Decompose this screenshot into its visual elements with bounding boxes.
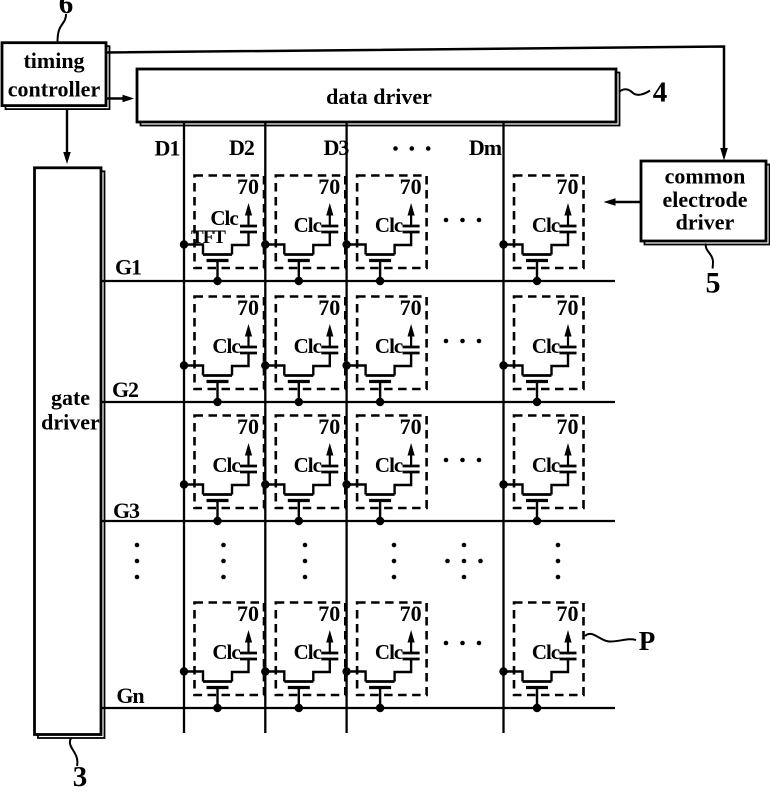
pixel cell R2C4 dashed outline bbox=[514, 297, 584, 390]
junction: gate on gate line (R1C4) bbox=[533, 277, 541, 285]
TFT gate bar (R3C2) bbox=[288, 499, 310, 502]
TFT transistor R1C2 channel bbox=[284, 253, 313, 256]
svg-text:driver: driver bbox=[41, 410, 100, 435]
wire: capacitor to TFT drain (R1C1) bbox=[232, 232, 249, 255]
svg-text:Clc: Clc bbox=[294, 640, 322, 664]
wire: capacitor to TFT drain (R2C1) bbox=[232, 353, 249, 376]
capacitor Clc R3C2 plates bbox=[321, 466, 338, 472]
wire: data line to TFT source (R2C3) bbox=[347, 366, 366, 376]
pixel cell R4C2 dashed outline bbox=[276, 603, 346, 696]
junction: gate on gate line (R4C4) bbox=[533, 704, 541, 712]
wire: capacitor to TFT drain (R2C2) bbox=[313, 353, 330, 376]
wire arrow: common electrode driver to panel bbox=[604, 198, 642, 206]
TFT gate bar (R2C4) bbox=[526, 380, 548, 383]
junction: source on data line (R1C4) bbox=[499, 240, 507, 248]
svg-text:D1: D1 bbox=[155, 136, 180, 161]
wire: capacitor to TFT drain (R3C2) bbox=[313, 472, 330, 495]
wire: TFT gate to gate line (R1C1) bbox=[216, 262, 218, 281]
wire: data line to TFT source (R1C1) bbox=[184, 245, 203, 255]
svg-text:5: 5 bbox=[706, 267, 721, 300]
TFT gate bar (R2C1) bbox=[207, 380, 229, 383]
junction: source on data line (R4C1) bbox=[180, 667, 188, 675]
pixel cell R2C1 dashed outline bbox=[195, 297, 265, 390]
svg-text:Gn: Gn bbox=[116, 683, 144, 708]
wire: data line to TFT source (R3C1) bbox=[184, 485, 203, 495]
wire: data line to TFT source (R2C2) bbox=[265, 366, 284, 376]
wire: TFT gate to gate line (R1C4) bbox=[536, 262, 538, 281]
svg-text:G1: G1 bbox=[115, 255, 141, 280]
TFT gate bar (R1C2) bbox=[288, 259, 310, 262]
junction: source on data line (R3C4) bbox=[499, 480, 507, 488]
svg-text:Clc: Clc bbox=[375, 453, 403, 477]
svg-text:70: 70 bbox=[318, 414, 340, 439]
diagonal/horizontal extra dots at matrix ellipsis crossing bbox=[445, 559, 483, 564]
wire arrow: timing controller to data driver bbox=[107, 95, 134, 103]
TFT transistor R3C3 channel bbox=[366, 493, 395, 496]
TFT transistor R2C3 channel bbox=[366, 374, 395, 377]
ellipsis row 2 between C3 and Cm bbox=[444, 339, 482, 344]
wire: TFT gate to gate line (R3C4) bbox=[536, 502, 538, 521]
svg-text:70: 70 bbox=[557, 414, 579, 439]
svg-text:3: 3 bbox=[73, 761, 88, 787]
common electrode driver U5 box shadow bbox=[645, 165, 770, 245]
ellipsis between D3 and Dm labels bbox=[393, 146, 430, 151]
wire: capacitor to TFT drain (R4C4) bbox=[552, 659, 569, 682]
svg-text:Clc: Clc bbox=[532, 640, 560, 664]
svg-text:Clc: Clc bbox=[294, 453, 322, 477]
timing controller U6 box shadow bbox=[6, 46, 110, 109]
TFT transistor R2C2 channel bbox=[284, 374, 313, 377]
svg-text:70: 70 bbox=[318, 601, 340, 626]
data driver U4 box bbox=[137, 69, 616, 122]
data line D3 bbox=[345, 122, 347, 733]
lead line to ref 3 bbox=[70, 738, 78, 766]
wire: TFT gate to gate line (R4C4) bbox=[536, 689, 538, 708]
common electrode driver U5 box bbox=[641, 161, 766, 241]
wire: capacitor to TFT drain (R3C3) bbox=[395, 472, 412, 495]
junction: source on data line (R4C4) bbox=[499, 667, 507, 675]
gate line Gn bbox=[101, 707, 615, 709]
junction: gate on gate line (R1C3) bbox=[376, 277, 384, 285]
gate line G3 bbox=[101, 520, 615, 522]
capacitor Clc R1C3 plates bbox=[403, 226, 420, 232]
wire: TFT gate to gate line (R2C3) bbox=[379, 383, 381, 402]
TFT gate bar (R1C3) bbox=[369, 259, 391, 262]
svg-text:70: 70 bbox=[557, 295, 579, 320]
TFT gate bar (R4C2) bbox=[288, 686, 310, 689]
junction: gate on gate line (R2C4) bbox=[533, 398, 541, 406]
svg-text:Clc: Clc bbox=[375, 640, 403, 664]
wire: capacitor to TFT drain (R4C1) bbox=[232, 659, 249, 682]
junction: gate on gate line (R2C3) bbox=[376, 398, 384, 406]
lead line to ref 6 bbox=[58, 14, 67, 43]
vertical ellipsis column x=223.5 bbox=[221, 543, 226, 580]
wire: TFT gate to gate line (R4C1) bbox=[216, 689, 218, 708]
wire: capacitor to TFT drain (R1C2) bbox=[313, 232, 330, 255]
wire: TFT gate to gate line (R4C3) bbox=[379, 689, 381, 708]
junction: source on data line (R1C1) bbox=[180, 240, 188, 248]
pixel cell R2C3 dashed outline bbox=[357, 297, 427, 390]
pixel cell R4C4 dashed outline bbox=[514, 603, 584, 696]
TFT transistor R1C3 channel bbox=[366, 253, 395, 256]
gate driver U3 box bbox=[35, 168, 102, 735]
svg-text:70: 70 bbox=[237, 295, 259, 320]
wire: capacitor to TFT drain (R3C4) bbox=[552, 472, 569, 495]
svg-text:P: P bbox=[639, 626, 656, 656]
pixel cell R3C1 dashed outline bbox=[195, 416, 265, 509]
capacitor Clc R1C2 plates bbox=[321, 226, 338, 232]
svg-text:controller: controller bbox=[8, 77, 101, 102]
wire: TFT gate to gate line (R2C4) bbox=[536, 383, 538, 402]
junction: source on data line (R4C2) bbox=[261, 667, 269, 675]
TFT transistor R1C1 channel bbox=[203, 253, 232, 256]
junction: source on data line (R1C2) bbox=[261, 240, 269, 248]
svg-text:70: 70 bbox=[557, 174, 579, 199]
data line D2 bbox=[264, 122, 266, 733]
TFT transistor R3C2 channel bbox=[284, 493, 313, 496]
wire: capacitor to TFT drain (R1C4) bbox=[552, 232, 569, 255]
capacitor Clc R2C1 plates bbox=[240, 347, 257, 353]
wire: data line to TFT source (R2C4) bbox=[504, 366, 523, 376]
junction: source on data line (R2C3) bbox=[342, 361, 350, 369]
svg-text:Clc: Clc bbox=[375, 334, 403, 358]
wire: data line to TFT source (R2C1) bbox=[184, 366, 203, 376]
arrow to common electrode 70 (R1C3) bbox=[408, 203, 415, 226]
junction: gate on gate line (R3C3) bbox=[376, 517, 384, 525]
junction: gate on gate line (R4C2) bbox=[295, 704, 303, 712]
svg-text:driver: driver bbox=[676, 210, 735, 235]
ellipsis row 3 between C3 and Cm bbox=[444, 458, 482, 463]
svg-text:70: 70 bbox=[237, 414, 259, 439]
svg-text:data driver: data driver bbox=[326, 84, 432, 109]
svg-text:Clc: Clc bbox=[532, 453, 560, 477]
wire: capacitor to TFT drain (R2C4) bbox=[552, 353, 569, 376]
gate line G2 bbox=[101, 401, 615, 403]
pixel cell R3C3 dashed outline bbox=[357, 416, 427, 509]
TFT transistor R1C4 channel bbox=[523, 253, 552, 256]
capacitor Clc R4C1 plates bbox=[240, 653, 257, 659]
TFT gate bar (R4C3) bbox=[369, 686, 391, 689]
wire: TFT gate to gate line (R3C2) bbox=[298, 502, 300, 521]
vertical ellipsis column x=464 bbox=[462, 543, 467, 580]
TFT gate bar (R3C4) bbox=[526, 499, 548, 502]
TFT transistor R4C4 channel bbox=[523, 680, 552, 683]
svg-text:Clc: Clc bbox=[532, 334, 560, 358]
junction: gate on gate line (R4C3) bbox=[376, 704, 384, 712]
ellipsis row 1 between C3 and Cm bbox=[444, 218, 482, 223]
arrow to common electrode 70 (R4C3) bbox=[408, 630, 415, 653]
wire: TFT gate to gate line (R1C3) bbox=[379, 262, 381, 281]
timing controller U6 box bbox=[2, 43, 106, 106]
capacitor Clc R4C4 plates bbox=[560, 653, 577, 659]
TFT gate bar (R4C1) bbox=[207, 686, 229, 689]
junction: gate on gate line (R1C2) bbox=[295, 277, 303, 285]
data driver U4 box shadow bbox=[141, 73, 620, 126]
TFT transistor R2C1 channel bbox=[203, 374, 232, 377]
wire: TFT gate to gate line (R2C1) bbox=[216, 383, 218, 402]
arrow to common electrode 70 (R3C2) bbox=[326, 443, 333, 466]
svg-text:D3: D3 bbox=[324, 135, 350, 160]
svg-text:Clc: Clc bbox=[212, 640, 240, 664]
pixel cell R1C3 dashed outline bbox=[357, 176, 427, 269]
svg-text:Dm: Dm bbox=[469, 135, 502, 160]
wire: data line to TFT source (R4C3) bbox=[347, 672, 366, 682]
svg-text:G2: G2 bbox=[112, 377, 139, 402]
wire: capacitor to TFT drain (R3C1) bbox=[232, 472, 249, 495]
pixel cell R4C1 dashed outline bbox=[195, 603, 265, 696]
svg-text:70: 70 bbox=[237, 174, 259, 199]
capacitor Clc R2C3 plates bbox=[403, 347, 420, 353]
wire: capacitor to TFT drain (R1C3) bbox=[395, 232, 412, 255]
arrow to common electrode 70 (R4C4) bbox=[564, 630, 571, 653]
svg-text:70: 70 bbox=[557, 601, 579, 626]
pixel cell R3C4 dashed outline bbox=[514, 416, 584, 509]
vertical ellipsis column x=394 bbox=[392, 543, 397, 580]
svg-text:common: common bbox=[665, 164, 746, 189]
junction: source on data line (R3C3) bbox=[342, 480, 350, 488]
svg-text:6: 6 bbox=[59, 0, 74, 20]
junction: gate on gate line (R3C4) bbox=[533, 517, 541, 525]
wire: TFT gate to gate line (R3C3) bbox=[379, 502, 381, 521]
junction: source on data line (R2C1) bbox=[180, 361, 188, 369]
TFT gate bar (R3C1) bbox=[207, 499, 229, 502]
TFT transistor R4C3 channel bbox=[366, 680, 395, 683]
wire: data line to TFT source (R4C4) bbox=[504, 672, 523, 682]
pixel cell R1C4 dashed outline bbox=[514, 176, 584, 269]
vertical ellipsis column x=305 bbox=[303, 543, 308, 580]
wire: capacitor to TFT drain (R4C2) bbox=[313, 659, 330, 682]
svg-text:70: 70 bbox=[400, 295, 422, 320]
junction: gate on gate line (R4C1) bbox=[213, 704, 221, 712]
vertical ellipsis column x=137 bbox=[135, 543, 140, 580]
capacitor Clc R4C2 plates bbox=[321, 653, 338, 659]
svg-text:electrode: electrode bbox=[662, 187, 747, 212]
wire: data line to TFT source (R3C4) bbox=[504, 485, 523, 495]
junction: source on data line (R3C1) bbox=[180, 480, 188, 488]
wire arrow: timing controller to gate driver bbox=[63, 109, 71, 164]
svg-text:70: 70 bbox=[400, 414, 422, 439]
wire: capacitor to TFT drain (R2C3) bbox=[395, 353, 412, 376]
wire: data line to TFT source (R3C2) bbox=[265, 485, 284, 495]
svg-text:Clc: Clc bbox=[212, 453, 240, 477]
junction: source on data line (R2C4) bbox=[499, 361, 507, 369]
arrow to common electrode 70 (R1C1) bbox=[245, 203, 252, 226]
svg-text:70: 70 bbox=[400, 174, 422, 199]
pixel cell R4C3 dashed outline bbox=[357, 603, 427, 696]
gate driver U3 box shadow bbox=[38, 171, 105, 738]
wire: TFT gate to gate line (R3C1) bbox=[216, 502, 218, 521]
wire: data line to TFT source (R1C2) bbox=[265, 245, 284, 255]
junction: gate on gate line (R3C1) bbox=[213, 517, 221, 525]
arrow to common electrode 70 (R4C1) bbox=[245, 630, 252, 653]
capacitor Clc R3C3 plates bbox=[403, 466, 420, 472]
pixel cell R1C1 dashed outline bbox=[195, 176, 265, 269]
junction: gate on gate line (R2C1) bbox=[213, 398, 221, 406]
svg-text:G3: G3 bbox=[113, 498, 140, 523]
junction: gate on gate line (R2C2) bbox=[295, 398, 303, 406]
junction: source on data line (R2C2) bbox=[261, 361, 269, 369]
arrow to common electrode 70 (R1C4) bbox=[564, 203, 571, 226]
wire: data line to TFT source (R1C4) bbox=[504, 245, 523, 255]
junction: source on data line (R4C3) bbox=[342, 667, 350, 675]
svg-text:Clc: Clc bbox=[294, 213, 322, 237]
svg-text:70: 70 bbox=[400, 601, 422, 626]
svg-text:70: 70 bbox=[318, 295, 340, 320]
svg-text:70: 70 bbox=[318, 174, 340, 199]
junction: source on data line (R1C3) bbox=[342, 240, 350, 248]
svg-text:timing: timing bbox=[23, 48, 84, 73]
capacitor Clc R2C4 plates bbox=[560, 347, 577, 353]
arrow to common electrode 70 (R3C4) bbox=[564, 443, 571, 466]
capacitor Clc R3C1 plates bbox=[240, 466, 257, 472]
svg-text:Clc: Clc bbox=[375, 213, 403, 237]
TFT gate bar (R2C3) bbox=[369, 380, 391, 383]
junction: gate on gate line (R1C1) bbox=[213, 277, 221, 285]
svg-text:Clc: Clc bbox=[212, 334, 240, 358]
capacitor Clc R1C1 plates bbox=[240, 226, 257, 232]
lead line to ref 4 bbox=[619, 89, 650, 95]
arrow to common electrode 70 (R3C1) bbox=[245, 443, 252, 466]
wire: data line to TFT source (R4C2) bbox=[265, 672, 284, 682]
wire: TFT gate to gate line (R2C2) bbox=[298, 383, 300, 402]
junction: source on data line (R3C2) bbox=[261, 480, 269, 488]
svg-text:Clc: Clc bbox=[532, 213, 560, 237]
wire: timing controller to common electrode driver (top) bbox=[107, 47, 724, 151]
TFT transistor R2C4 channel bbox=[523, 374, 552, 377]
TFT gate bar (R4C4) bbox=[526, 686, 548, 689]
data line D1 bbox=[183, 122, 185, 733]
arrow to common electrode 70 (R2C1) bbox=[245, 324, 252, 347]
wire: data line to TFT source (R4C1) bbox=[184, 672, 203, 682]
arrow to common electrode 70 (R2C4) bbox=[564, 324, 571, 347]
TFT gate bar (R1C4) bbox=[526, 259, 548, 262]
wire: capacitor to TFT drain (R4C3) bbox=[395, 659, 412, 682]
ellipsis row 4 between C3 and Cm bbox=[444, 641, 482, 646]
gate line G1 bbox=[101, 280, 615, 282]
arrow to common electrode 70 (R2C3) bbox=[408, 324, 415, 347]
capacitor Clc R3C4 plates bbox=[560, 466, 577, 472]
svg-text:D2: D2 bbox=[229, 135, 255, 160]
wire: data line to TFT source (R1C3) bbox=[347, 245, 366, 255]
TFT gate bar (R3C3) bbox=[369, 499, 391, 502]
pixel cell R2C2 dashed outline bbox=[276, 297, 346, 390]
capacitor Clc R1C4 plates bbox=[560, 226, 577, 232]
capacitor Clc R4C3 plates bbox=[403, 653, 420, 659]
wire: TFT gate to gate line (R1C2) bbox=[298, 262, 300, 281]
junction: gate on gate line (R3C2) bbox=[295, 517, 303, 525]
lead line to ref 5 bbox=[706, 244, 713, 269]
arrow to common electrode 70 (R3C3) bbox=[408, 443, 415, 466]
svg-text:4: 4 bbox=[653, 77, 668, 109]
TFT gate bar (R1C1) bbox=[207, 259, 229, 262]
svg-text:Clc: Clc bbox=[294, 334, 322, 358]
TFT transistor R3C1 channel bbox=[203, 493, 232, 496]
pixel cell R1C2 dashed outline bbox=[276, 176, 346, 269]
TFT gate bar (R2C2) bbox=[288, 380, 310, 383]
TFT transistor R4C2 channel bbox=[284, 680, 313, 683]
wire: data line to TFT source (R3C3) bbox=[347, 485, 366, 495]
arrow to common electrode 70 (R4C2) bbox=[326, 630, 333, 653]
pixel cell R3C2 dashed outline bbox=[276, 416, 346, 509]
lead line to ref P (pixel) bbox=[585, 634, 636, 642]
vertical ellipsis column x=558 bbox=[556, 543, 561, 580]
wire: TFT gate to gate line (R4C2) bbox=[298, 689, 300, 708]
arrow to common electrode 70 (R1C2) bbox=[326, 203, 333, 226]
TFT transistor R4C1 channel bbox=[203, 680, 232, 683]
capacitor Clc R2C2 plates bbox=[321, 347, 338, 353]
data line Dm bbox=[502, 122, 504, 733]
arrow to common electrode 70 (R2C2) bbox=[326, 324, 333, 347]
svg-text:70: 70 bbox=[237, 601, 259, 626]
svg-text:gate: gate bbox=[51, 385, 90, 410]
TFT transistor R3C4 channel bbox=[523, 493, 552, 496]
